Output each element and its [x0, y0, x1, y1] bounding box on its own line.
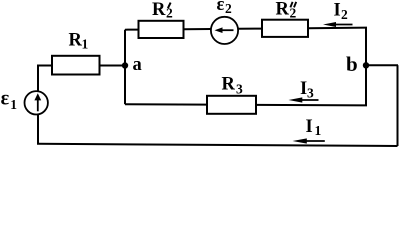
wire: R1 branch right segment to node a: [100, 65, 126, 67]
node a (junction dot): [122, 62, 128, 68]
svg-text:2: 2: [225, 1, 232, 16]
current arrow I3: [289, 97, 319, 102]
node b (junction dot): [363, 62, 369, 68]
svg-text:2: 2: [166, 6, 173, 21]
label I1: [306, 117, 322, 138]
svg-text:3: 3: [307, 85, 314, 100]
svg-text:I: I: [306, 117, 313, 137]
svg-text:R: R: [152, 0, 166, 20]
svg-text:2: 2: [341, 7, 348, 22]
wire: top branch, node-a vertical to R2': [125, 29, 139, 31]
wire: top branch, EMF e2 to R2'': [239, 28, 263, 30]
label e2: [217, 0, 233, 16]
resistor R3: [207, 96, 256, 114]
wire: vertical through node a (top branch to R3 branch): [124, 30, 126, 105]
current arrow I2: [323, 22, 353, 27]
label R1: [69, 30, 89, 51]
wire: top branch, R2' to EMF e2: [184, 28, 212, 30]
svg-text:I: I: [334, 0, 341, 20]
wire: inner right vertical from top branch to R3 branch: [365, 28, 367, 106]
svg-text:R: R: [69, 30, 83, 50]
wire: right outer vertical: [397, 65, 399, 146]
label R2'': [276, 0, 297, 20]
label R2': [152, 0, 173, 21]
wire: node b to right outer vertical: [366, 64, 398, 66]
wire: R1 branch left segment: [37, 65, 52, 67]
label I3: [300, 79, 314, 100]
svg-text:1: 1: [82, 37, 89, 52]
svg-text:R: R: [276, 0, 290, 20]
label e1: [1, 88, 18, 112]
wire: top branch, R2'' to inner right vertical: [308, 27, 367, 30]
label I2: [334, 0, 349, 22]
svg-text:3: 3: [236, 81, 243, 96]
resistor R2'': [262, 20, 308, 37]
svg-text:ε: ε: [217, 0, 225, 15]
svg-text:a: a: [133, 55, 142, 75]
svg-text:b: b: [346, 52, 358, 76]
wire: R3 branch, node a to R3: [125, 103, 207, 105]
svg-text:1: 1: [10, 97, 17, 112]
resistor R2': [139, 21, 184, 38]
svg-text:1: 1: [315, 123, 322, 138]
svg-text:R: R: [222, 74, 236, 94]
EMF source e1 (circle with up arrow): [25, 91, 48, 114]
current arrow I1: [293, 138, 325, 143]
label R3: [222, 74, 244, 96]
EMF source e2 (circle with left arrow): [211, 17, 238, 44]
resistor R1: [52, 56, 100, 75]
wire: left vertical from R1 branch down to bottom wire: [37, 66, 39, 144]
wire: bottom horizontal: [37, 144, 398, 146]
svg-text:2: 2: [290, 5, 297, 20]
wire: R3 branch, R3 to inner right vertical: [256, 104, 367, 107]
svg-text:ε: ε: [1, 88, 10, 110]
